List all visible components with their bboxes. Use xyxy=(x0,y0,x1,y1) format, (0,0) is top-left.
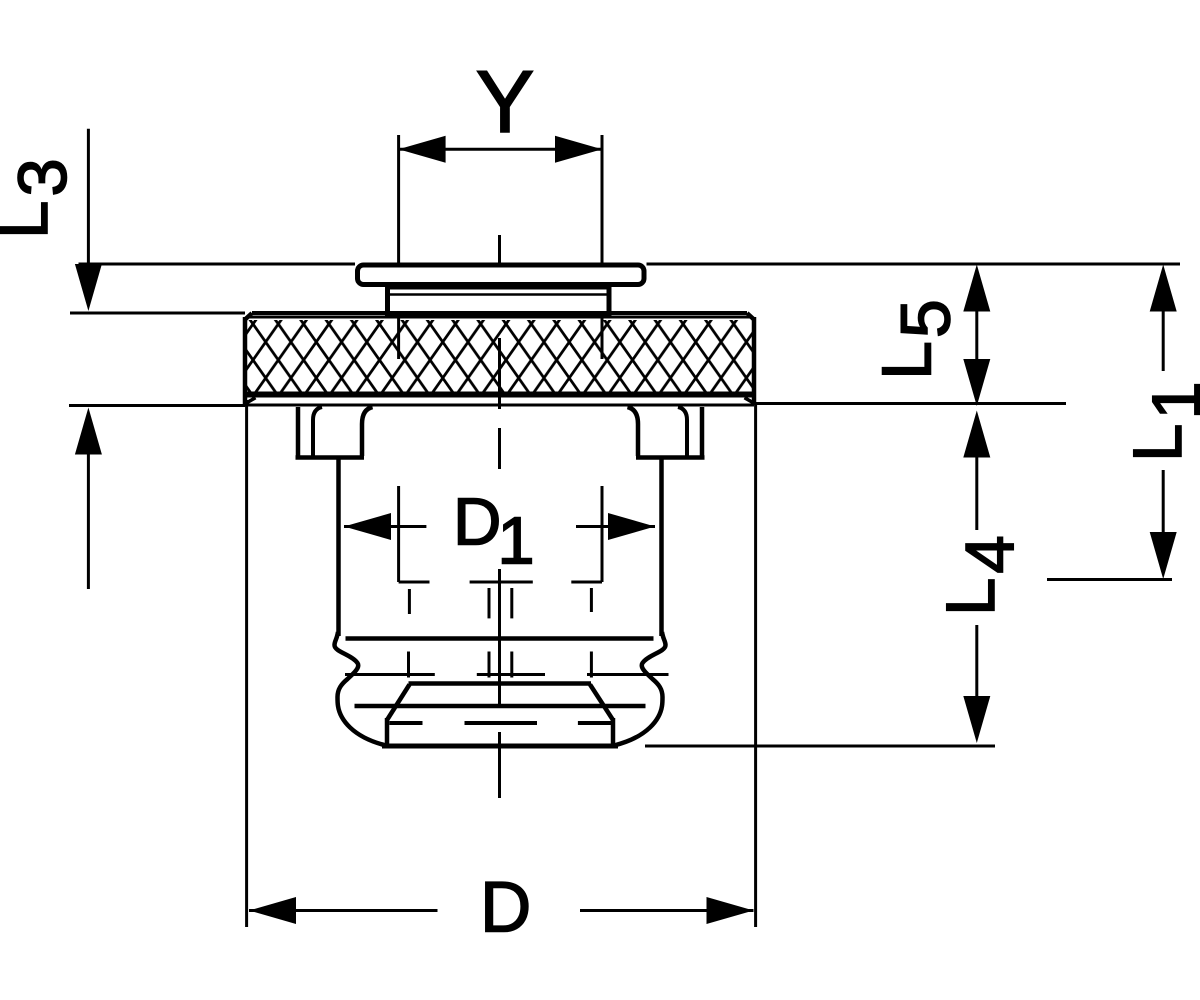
svg-text:L1: L1 xyxy=(1119,381,1200,462)
svg-text:Y: Y xyxy=(476,52,535,151)
svg-text:L3: L3 xyxy=(0,158,81,239)
svg-text:D: D xyxy=(480,869,531,948)
svg-text:L4: L4 xyxy=(932,535,1028,616)
svg-text:D1: D1 xyxy=(453,485,535,579)
svg-text:L5: L5 xyxy=(868,299,965,380)
